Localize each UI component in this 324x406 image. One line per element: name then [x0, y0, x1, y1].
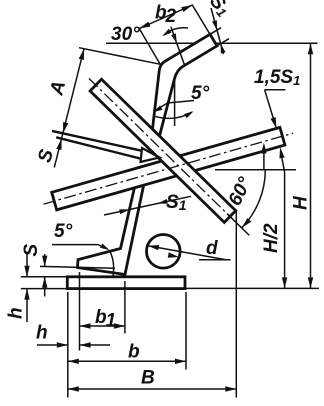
thin web S (upper-left thin strip)	[52, 131, 147, 160]
5 deg vertical reference	[174, 77, 176, 126]
dimension h (overhang)	[37, 344, 68, 346]
svg-text:h: h	[6, 307, 27, 319]
svg-text:d: d	[206, 238, 218, 259]
dimension S1 (arm thickness)	[211, 8, 224, 54]
svg-text:1: 1	[106, 311, 117, 332]
left extension of bar bottom	[21, 288, 68, 290]
extension line profile right	[235, 210, 237, 398]
centerline of strip M	[44, 133, 293, 204]
svg-text:b: b	[128, 342, 140, 363]
svg-text:2: 2	[165, 6, 177, 27]
dimension S (foot thickness) left	[44, 254, 46, 267]
1,5S1 leader to top face	[265, 90, 277, 129]
5 deg arc	[153, 112, 192, 118]
foot underside extension line	[40, 266, 115, 268]
horizontal leg of 60 deg	[215, 169, 296, 171]
dimension b2	[139, 5, 192, 28]
dimension b1	[80, 325, 125, 327]
extension from inner bend corner	[171, 27, 185, 66]
svg-text:H/2: H/2	[261, 223, 282, 253]
top bent arm	[153, 34, 218, 136]
edge extensions at arm end	[210, 28, 221, 35]
axis extension of strip N for 60 deg	[227, 214, 249, 236]
dimension A	[54, 49, 84, 168]
5 deg foot arc	[110, 251, 114, 278]
1,5S1 lower arrow to centerline	[263, 152, 265, 170]
bottom reference line right	[185, 287, 319, 289]
centerline of strip N	[89, 79, 232, 219]
1,5S1 leader shelf	[265, 89, 286, 91]
extension line stem right at bar	[124, 281, 126, 334]
svg-text:B: B	[141, 368, 155, 389]
svg-text:1,5S1: 1,5S1	[254, 67, 300, 88]
stem with flared foot	[78, 185, 144, 277]
strip N (steep diagonal bar of X)	[90, 79, 236, 222]
angle 30 deg arc	[164, 28, 188, 35]
angle 30 deg arc arrow on extension	[171, 33, 177, 43]
svg-text:S: S	[34, 147, 58, 165]
strip M (long shallow diagonal bar of X)	[52, 127, 285, 209]
svg-text:30°: 30°	[111, 24, 140, 45]
svg-text:A: A	[46, 79, 70, 98]
5 deg foot leader	[52, 245, 108, 249]
pointed end of thin web	[141, 148, 160, 162]
dimension b	[68, 360, 186, 362]
svg-text:S: S	[21, 244, 42, 257]
dimension d leader	[148, 246, 226, 260]
dimension H/2	[284, 172, 286, 288]
dimension H	[310, 43, 312, 288]
svg-text:S1: S1	[166, 192, 187, 213]
round rod d	[147, 235, 181, 269]
svg-text:H: H	[291, 195, 312, 210]
extension line bar right	[185, 292, 187, 370]
dimension B	[68, 388, 237, 390]
angle 60 deg arc	[242, 170, 266, 228]
dimension h (bar height) left	[26, 252, 28, 277]
dimension b2 extension at arm end	[192, 5, 212, 37]
left extension of bar top	[21, 276, 68, 278]
svg-text:S1: S1	[205, 0, 234, 20]
top reference line (H)	[106, 42, 318, 44]
svg-text:5°: 5°	[54, 221, 73, 242]
dimension S (web thickness)	[56, 139, 61, 150]
extension line foot left end	[79, 272, 81, 351]
A reference slant line	[79, 48, 161, 65]
dimension S1 (stem thickness)	[104, 196, 191, 215]
svg-text:h: h	[36, 323, 48, 344]
extension line base left	[67, 292, 69, 398]
extension from outer bend corner	[138, 27, 160, 64]
bottom flat bar	[67, 277, 185, 289]
5 deg leader	[154, 101, 195, 112]
